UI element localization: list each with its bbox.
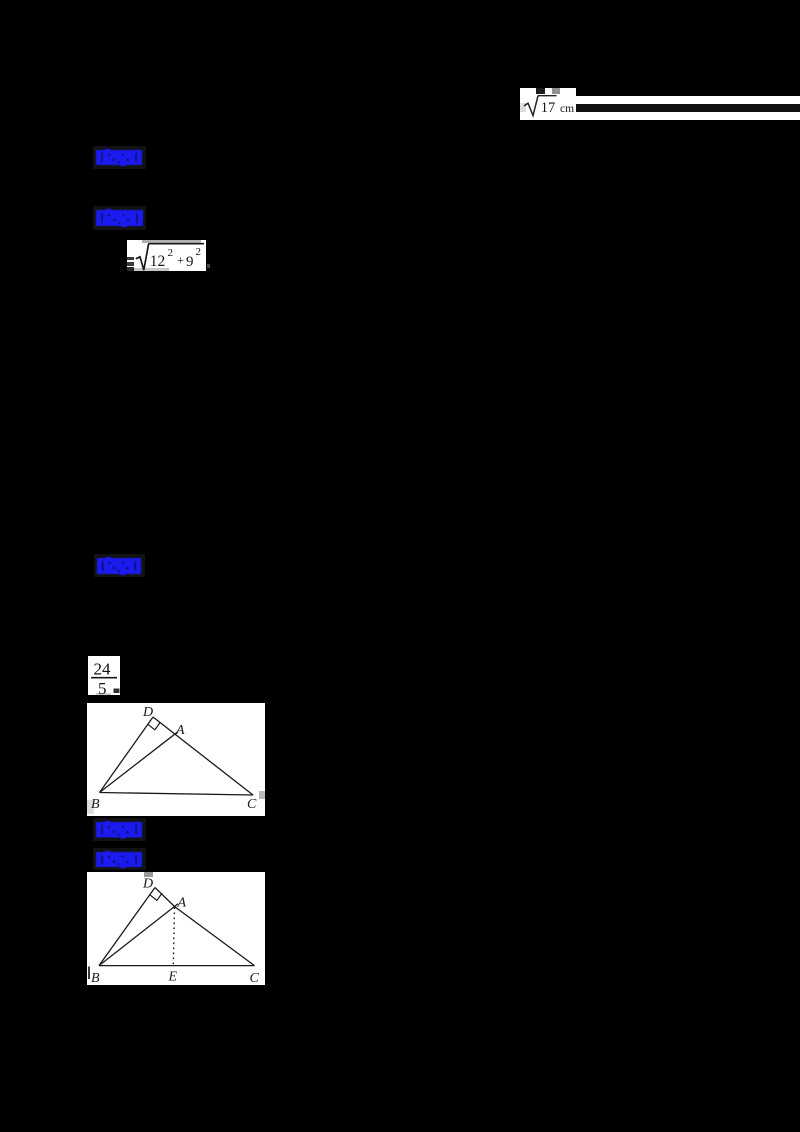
equals sign dark	[127, 257, 134, 260]
svg-text:17: 17	[541, 100, 556, 116]
svg-text:B: B	[91, 797, 100, 812]
right angle mark at D	[150, 893, 162, 900]
svg-text:A: A	[175, 723, 185, 738]
label block 3 (blue 【点评】)	[94, 554, 145, 577]
gray smudge bottom of fraction	[96, 693, 111, 696]
label block 2 (blue 【解答】)	[93, 206, 146, 230]
sqrt(12^2+9^2) glyphs	[127, 240, 206, 271]
svg-text:E: E	[168, 969, 178, 984]
light gray patch left	[520, 103, 526, 112]
gray artifact right edge	[259, 791, 265, 799]
fraction image 24/5	[88, 656, 120, 695]
gray notch top	[144, 872, 153, 877]
diagram 2: triangle B D A C with dashed AE	[87, 872, 265, 986]
side BD	[100, 717, 154, 793]
formula image sqrt(17) cm	[520, 88, 576, 120]
svg-text:A: A	[177, 895, 187, 910]
label block 5 (blue 【点评】)	[93, 848, 146, 870]
svg-text:9: 9	[186, 254, 194, 270]
dashed altitude AE	[173, 907, 174, 965]
segment BA	[99, 903, 178, 965]
base BC	[99, 964, 255, 966]
svg-text:12: 12	[150, 253, 166, 270]
svg-text:5: 5	[98, 679, 107, 695]
dark tick left edge	[88, 966, 90, 979]
answer blank black underline band	[576, 104, 800, 112]
svg-text:D: D	[142, 705, 153, 720]
svg-text:+: +	[177, 253, 184, 267]
gray strip bottom of formula	[132, 268, 169, 271]
svg-text:cm: cm	[560, 103, 574, 115]
svg-text:B: B	[91, 971, 100, 986]
label block 1 (blue 【分析】)	[93, 146, 146, 169]
answer blank white strip	[576, 96, 800, 120]
svg-text:2: 2	[196, 246, 202, 258]
svg-text:2: 2	[168, 247, 174, 259]
formula image = sqrt(12^2+9^2)	[127, 240, 206, 271]
artifact gray square above sqrt17	[552, 88, 560, 94]
svg-text:24: 24	[94, 660, 112, 679]
label block 4 (blue 【解答】)	[93, 818, 146, 841]
diagram 1: triangle B D A C	[87, 703, 265, 816]
base BC	[100, 793, 254, 796]
svg-text:C: C	[247, 797, 257, 812]
dark dot after formula	[207, 264, 210, 268]
artifact black square above sqrt17	[536, 88, 545, 94]
svg-text:C: C	[250, 971, 260, 986]
side DC through A	[155, 887, 255, 965]
gray strip top of formula	[142, 240, 201, 243]
svg-text:D: D	[142, 876, 153, 891]
side DC through A	[153, 717, 253, 795]
side BD	[99, 887, 155, 965]
fraction glyphs and period	[88, 656, 120, 695]
gray patch bottom-left	[87, 800, 94, 814]
sqrt(17) cm glyphs	[520, 88, 576, 120]
right angle mark at D	[148, 723, 160, 730]
segment BA	[100, 732, 179, 793]
